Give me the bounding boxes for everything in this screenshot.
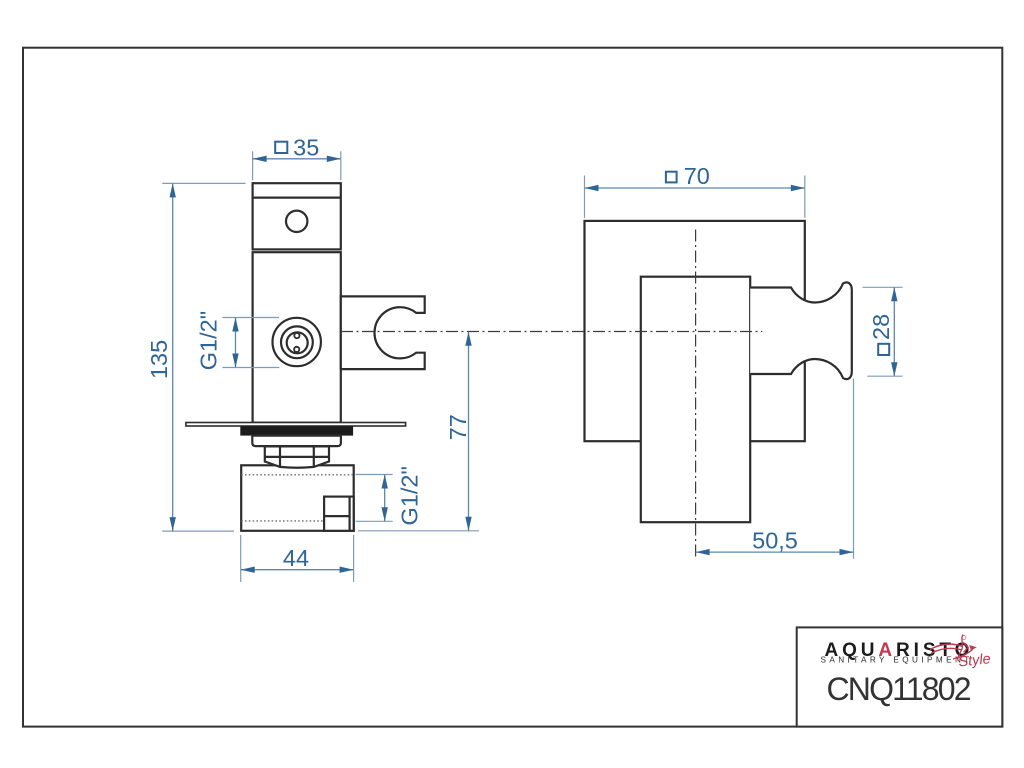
dimension "square 28" knob size <box>863 287 903 376</box>
centerline horizontal axis <box>341 331 762 333</box>
svg-text:CNQ11802: CNQ11802 <box>827 671 972 707</box>
front view: dark gasket band <box>240 426 353 435</box>
dimension "square 35" top of front view <box>253 134 341 180</box>
logo registered mark <box>962 636 966 640</box>
front view: cap screw circle <box>286 211 307 232</box>
dimension "50,5" axis to knob face <box>696 379 854 559</box>
centerline vertical axis <box>695 230 697 559</box>
svg-text:35: 35 <box>293 134 319 160</box>
front view: holder bracket with C cutout <box>341 296 425 369</box>
front view: wall plate <box>186 423 406 427</box>
svg-text:50,5: 50,5 <box>752 528 798 554</box>
svg-text:44: 44 <box>283 545 309 571</box>
front view: outlet circles G1/2 <box>273 318 321 366</box>
svg-text:G1/2": G1/2" <box>195 311 221 370</box>
side view: body <box>641 277 750 523</box>
logo Style script <box>958 635 992 671</box>
svg-text:77: 77 <box>445 414 471 440</box>
dimension "44" bottom outlet width <box>241 535 354 582</box>
svg-text:135: 135 <box>146 340 172 379</box>
dimension "G1/2 inch" outlet circle <box>195 311 279 370</box>
front view: escutcheon collar <box>252 436 341 447</box>
svg-text:G1/2": G1/2" <box>396 466 422 525</box>
logo red swoosh arcs through O <box>930 643 973 660</box>
dimension "square 70" plate width <box>585 163 805 218</box>
svg-text:Style: Style <box>958 651 992 670</box>
dimension "135" overall height <box>146 183 245 531</box>
front view: thread dotted lines <box>241 475 354 521</box>
front view: main body <box>253 252 341 423</box>
dimension "G1/2 inch" bottom thread <box>356 466 423 525</box>
front view: small valve box bottom right <box>324 497 354 531</box>
svg-text:70: 70 <box>684 163 710 189</box>
side view: wall plate square 70 <box>585 221 805 441</box>
front view: hex nut <box>265 446 329 467</box>
logo red arrowhead <box>969 645 977 651</box>
title block box <box>797 627 1003 726</box>
svg-text:28: 28 <box>868 314 894 340</box>
side view: holder knob profile <box>750 282 852 379</box>
svg-text:SANITARY EQUIPMENT: SANITARY EQUIPMENT <box>821 655 973 664</box>
front view: bottom outlet body 44mm <box>241 465 354 531</box>
dimension "77" axis to bottom <box>358 332 479 531</box>
front view: top cap section <box>253 183 341 249</box>
